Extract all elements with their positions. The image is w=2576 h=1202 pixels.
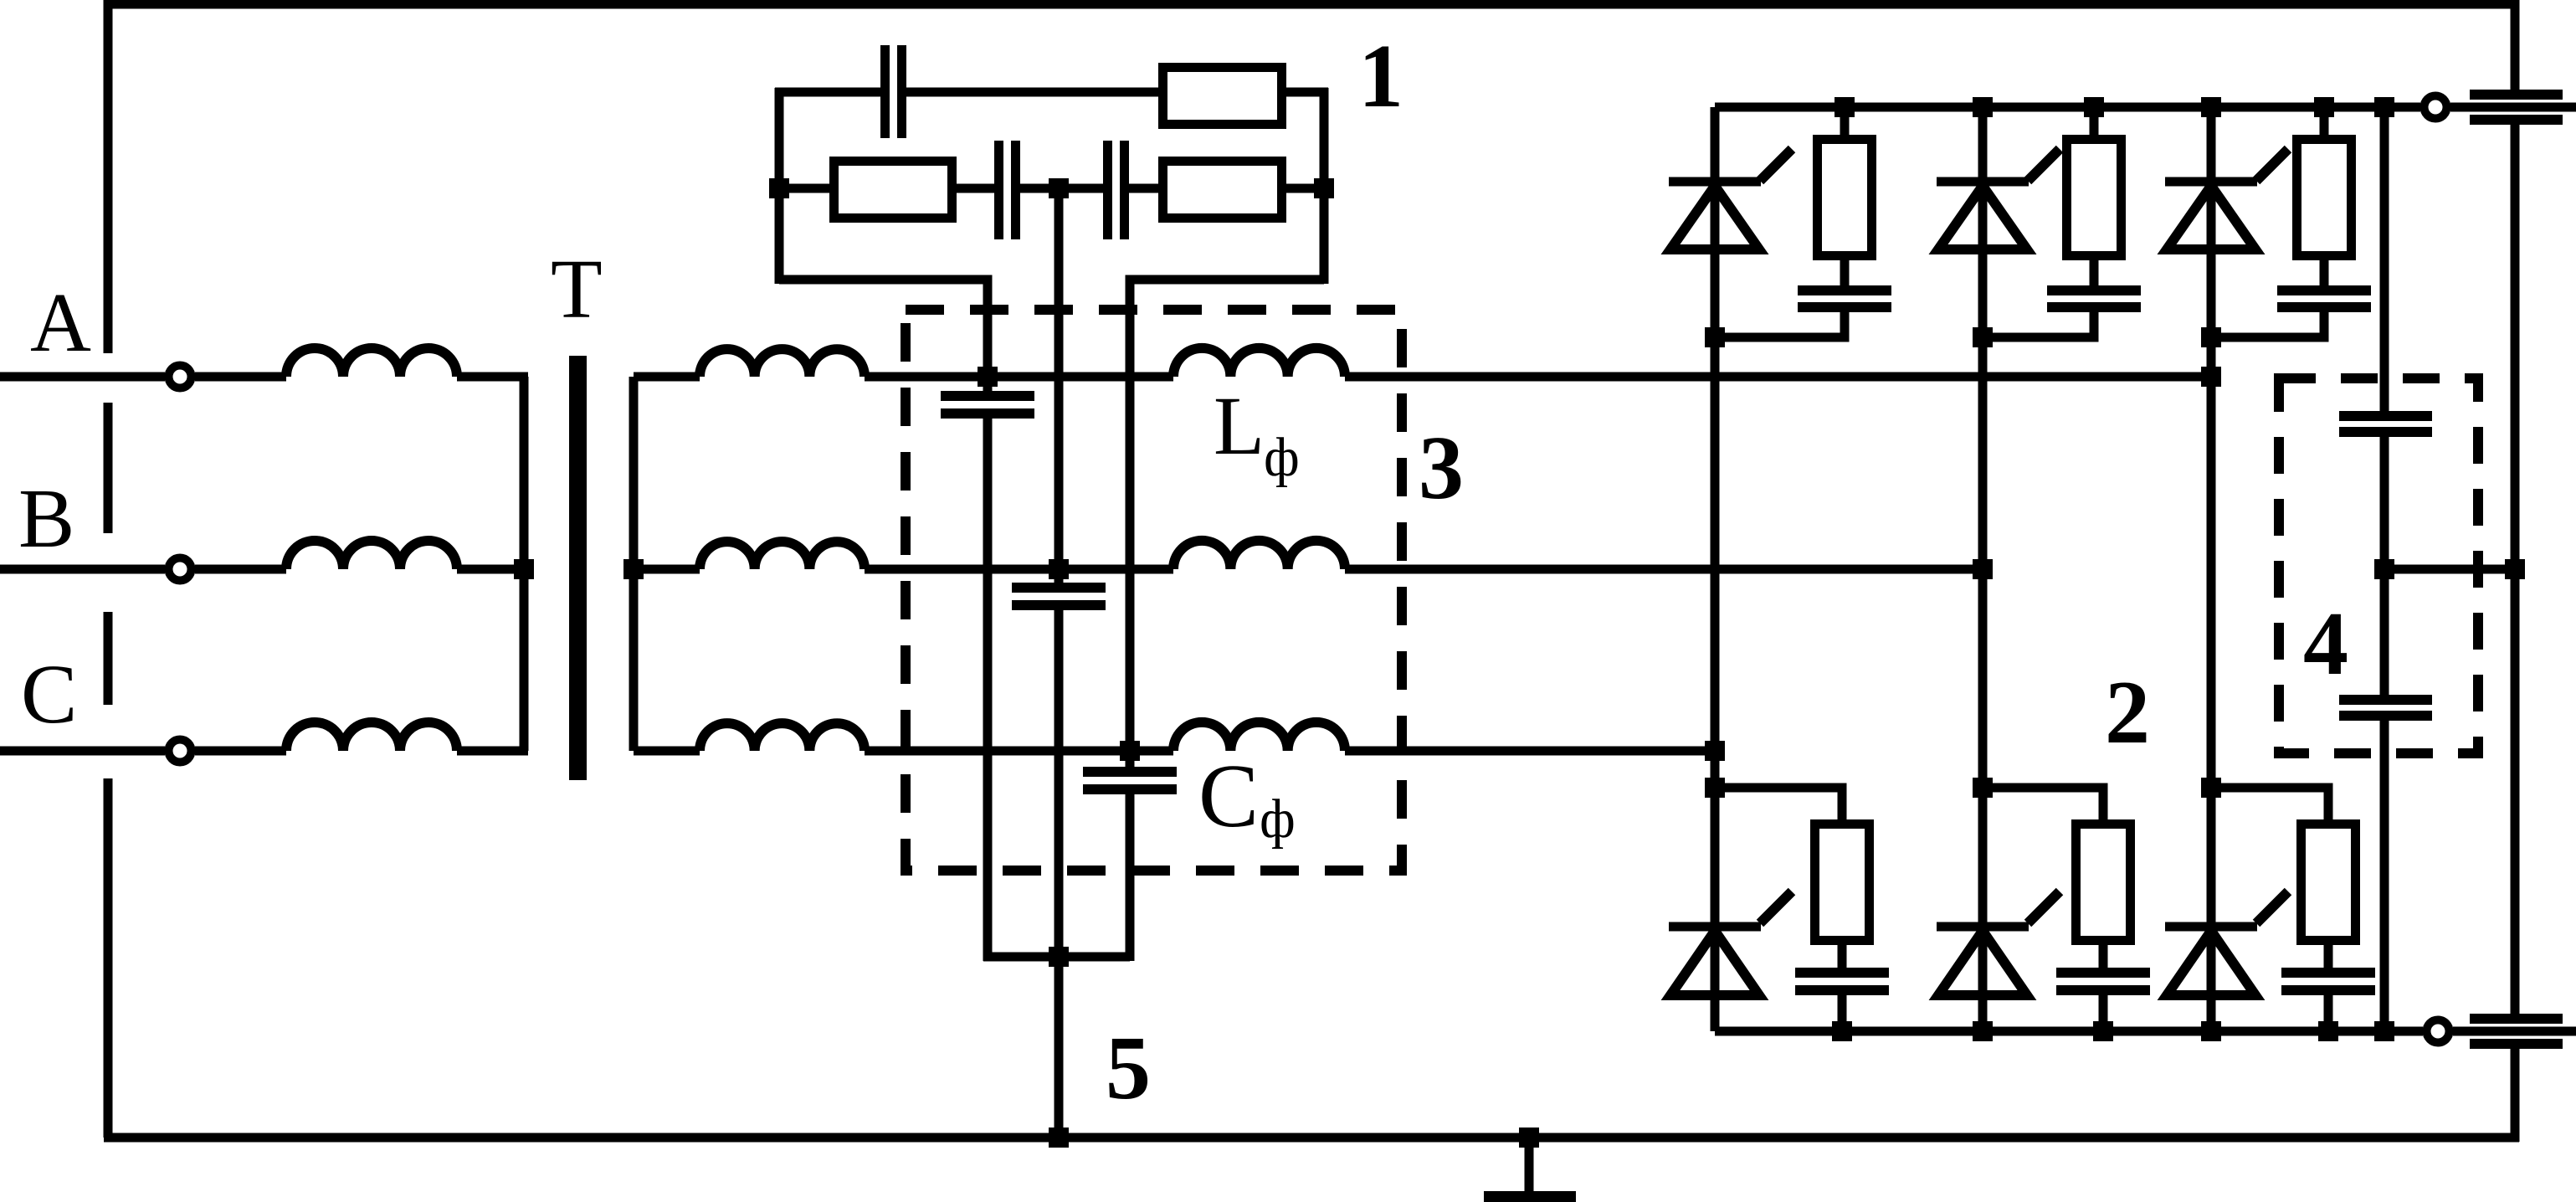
enclosure left border (gap at B) [104, 403, 113, 533]
wire line3 lower [1126, 794, 1135, 961]
capacitor Cf A [941, 391, 1034, 419]
capacitor snubber C3 top [2277, 285, 2371, 312]
node C leg1 [1705, 741, 1725, 761]
node primary star [514, 559, 534, 579]
label 2 [2105, 663, 2150, 763]
wire block1 mid left [779, 184, 829, 193]
resistor snubber R2 top [2067, 140, 2122, 256]
wire snubber 4 mid [1838, 945, 1847, 968]
resistor snubber R1 top [1818, 140, 1872, 256]
label 3 [1419, 419, 1464, 518]
inductor Lf B [1173, 541, 1345, 569]
thyristor VS5 (bottom) [1937, 891, 2060, 995]
node block4 mid [2374, 559, 2394, 579]
node snubber 3 leg join [2201, 327, 2221, 347]
wire snubber 5 mid [2099, 945, 2108, 968]
node line2 jog [1049, 947, 1069, 967]
wire block1 left vertical [775, 88, 784, 284]
svg-text:ф: ф [1264, 427, 1300, 488]
wire line2 lower [1055, 609, 1064, 1138]
wire snubber 3 mid [2320, 260, 2329, 285]
inductor primary C [286, 722, 457, 751]
svg-text:C: C [21, 647, 77, 741]
thyristor VS2 (top) [1937, 149, 2060, 249]
wire snubber 6 bottom [2324, 995, 2333, 1031]
thyristor VS6 (bottom) [2165, 891, 2288, 995]
node block4 border [2505, 559, 2525, 579]
node block4 top bus [2374, 97, 2394, 117]
enclosure left border bottom segment [104, 778, 113, 1138]
node leg2 top bus [1973, 97, 1993, 117]
wire snubber 2 bottom [1983, 312, 2094, 337]
wire primary star vertical [520, 377, 529, 751]
wire snubber 6 top jog [2211, 788, 2328, 819]
wire block1 mid a [957, 184, 994, 193]
inductor secondary A [700, 349, 865, 377]
resistor snubber R3 top [2297, 140, 2352, 256]
inductor primary B [286, 541, 457, 569]
label 4 [2303, 594, 2348, 694]
node block1 mid left [769, 178, 789, 198]
resistor snubber R6 bottom [2301, 824, 2356, 941]
wire B to bridge [1345, 565, 1983, 574]
wire block1 top branch middle [906, 88, 1158, 97]
wire block1 top branch right [1286, 88, 1328, 97]
enclosure right border middle segment [2511, 122, 2520, 1018]
wire secondary star C [634, 747, 700, 756]
wire C to bridge [1345, 747, 1715, 756]
wire A terminal to coil [195, 372, 286, 382]
node snubber 5 bottom bus [2093, 1021, 2113, 1041]
enclosure right border top segment [2511, 0, 2520, 92]
inductor secondary C [700, 723, 865, 751]
capacitor snubber C4 bottom [1795, 968, 1889, 995]
output terminal + (top) [2425, 96, 2447, 119]
capacitor block1 mid-right [1103, 141, 1129, 239]
wire snubber 4 bottom [1838, 995, 1847, 1031]
node line2 phase B [1049, 559, 1069, 579]
label Lf [1214, 379, 1300, 488]
wire snubber 5 bottom [2099, 995, 2108, 1031]
wire snubber 4 top jog [1715, 788, 1842, 819]
wire block1 right vertical [1320, 88, 1329, 284]
node secondary star [623, 559, 644, 579]
inductor Lf A [1173, 348, 1345, 377]
enclosure bottom border [104, 1133, 2519, 1143]
thyristor VS1 (top) [1669, 149, 1792, 249]
enclosure left border (gap at C) [104, 612, 113, 705]
wire block1 top branch left [775, 88, 880, 97]
label B [18, 471, 74, 565]
wire bridge leg 1 [1711, 107, 1720, 1031]
wire block1 bottom right [1130, 280, 1324, 767]
label C [21, 647, 77, 741]
wire snubber 6 mid [2324, 945, 2333, 968]
capacitor block4 upper [2339, 411, 2432, 437]
node snubber R3 top bus [2314, 97, 2334, 117]
node 5 junction [1049, 1128, 1069, 1148]
label 1 [1358, 27, 1403, 126]
wire snubber 2 top [2090, 107, 2099, 135]
wire block4 lower [2380, 721, 2389, 1031]
node ground junction [1519, 1128, 1539, 1148]
inductor primary A [286, 348, 457, 377]
wire C secondary to Lf [865, 747, 1173, 756]
wire feedthrough bottom [2453, 1027, 2576, 1036]
thyristor VS4 (bottom) [1669, 891, 1792, 995]
dashed box 3 [906, 310, 1402, 871]
enclosure right border bottom segment [2511, 1046, 2520, 1142]
wire bottom bus [1715, 1027, 2423, 1036]
node snubber 5 leg join [1973, 778, 1993, 798]
svg-text:L: L [1214, 379, 1265, 472]
svg-text:3: 3 [1419, 419, 1464, 518]
capacitor block1 top [880, 45, 906, 138]
svg-text:A: A [30, 275, 91, 369]
label T [551, 242, 603, 336]
svg-text:4: 4 [2303, 594, 2348, 694]
wire B secondary to Lf [865, 565, 1173, 574]
label A [30, 275, 91, 369]
wire snubber 1 mid [1840, 260, 1850, 285]
wire block4 upper [2380, 107, 2389, 411]
wire snubber 1 top [1840, 107, 1850, 135]
inductor Lf C [1173, 722, 1345, 751]
node B leg2 [1973, 559, 1993, 579]
node snubber R2 top bus [2084, 97, 2104, 117]
svg-text:ф: ф [1260, 788, 1296, 850]
dashed box 4 [2279, 378, 2478, 753]
wire secondary star vertical [629, 377, 639, 751]
wire phase B input [0, 565, 165, 574]
input terminal B [169, 558, 192, 581]
wire block4 to border [2384, 565, 2515, 574]
resistor snubber R5 bottom [2076, 824, 2131, 941]
wire C terminal to coil [195, 747, 286, 756]
wire phase A input [0, 372, 165, 382]
svg-text:T: T [551, 242, 603, 336]
wire block1 mid b [1020, 184, 1103, 193]
node block1 mid right [1314, 178, 1334, 198]
node snubber 4 leg join [1705, 778, 1725, 798]
wire snubber 1 bottom [1715, 312, 1845, 337]
wire snubber 2 mid [2090, 260, 2099, 285]
wire C coil to star [457, 747, 528, 756]
capacitor Cf C [1083, 767, 1177, 794]
wire jog bottom [983, 953, 1130, 962]
wire A secondary to Lf [865, 372, 1173, 382]
wire A to bridge [1345, 372, 2211, 382]
node snubber 6 bottom bus [2318, 1021, 2338, 1041]
svg-text:5: 5 [1106, 1019, 1151, 1118]
wire block1 bottom left [779, 280, 988, 391]
svg-text:1: 1 [1358, 27, 1403, 126]
wire line2 upper [1055, 188, 1064, 583]
capacitor feedthrough top [2470, 90, 2563, 125]
wire block4 middle [2380, 437, 2389, 695]
svg-text:C: C [1198, 747, 1259, 846]
inductor secondary B [700, 542, 865, 569]
wire snubber 3 top [2320, 107, 2329, 135]
node snubber 6 leg join [2201, 778, 2221, 798]
wire B terminal to coil [195, 565, 286, 574]
enclosure top border [104, 0, 2519, 9]
output terminal - (bottom) [2427, 1020, 2450, 1043]
resistor snubber R4 bottom [1815, 824, 1870, 941]
svg-text:B: B [18, 471, 74, 565]
capacitor Cf B [1012, 583, 1106, 610]
capacitor block1 mid-left [994, 141, 1020, 239]
wire line1 lower [983, 418, 993, 961]
capacitor feedthrough bottom [2470, 1014, 2563, 1049]
thyristor VS3 (top) [2165, 149, 2288, 249]
node snubber 2 leg join [1973, 327, 1993, 347]
wire secondary star B [634, 565, 700, 574]
wire top bus [1715, 103, 2420, 112]
wire snubber 5 top jog [1983, 788, 2103, 819]
capacitor snubber C2 top [2047, 285, 2141, 312]
label Cf [1198, 747, 1296, 850]
wire B coil to star [457, 565, 528, 574]
resistor block1 mid-right [1163, 162, 1282, 218]
input terminal A [169, 366, 192, 388]
enclosure left border (gap at A) [104, 0, 113, 353]
capacitor snubber C6 bottom [2281, 968, 2375, 995]
wire bridge leg 2 [1978, 107, 1988, 1031]
capacitor block4 lower [2339, 695, 2432, 721]
node line1 phase A [978, 367, 998, 387]
node block4 bottom bus [2374, 1021, 2394, 1041]
node leg5 bottom bus [1973, 1021, 1993, 1041]
capacitor snubber C5 bottom [2056, 968, 2150, 995]
input terminal C [169, 740, 192, 763]
node snubber 1 leg join [1705, 327, 1725, 347]
wire bridge leg 3 [2207, 107, 2216, 1031]
node block1 mid center [1049, 178, 1069, 198]
resistor block1 mid-left [834, 162, 952, 218]
node leg6 bottom bus [2201, 1021, 2221, 1041]
node A leg3 [2201, 367, 2221, 387]
wire phase C input [0, 747, 165, 756]
node snubber R1 top bus [1835, 97, 1855, 117]
wire A coil to star [457, 372, 528, 382]
ground [1484, 1138, 1576, 1202]
wire feedthrough top [2450, 103, 2576, 112]
capacitor snubber C1 top [1798, 285, 1891, 312]
node line3 phase C [1120, 741, 1140, 761]
node snubber 4 bottom bus [1832, 1021, 1852, 1041]
resistor block1 top [1163, 68, 1282, 125]
wire snubber 3 bottom [2211, 312, 2324, 337]
node leg3 top bus [2201, 97, 2221, 117]
label 5 [1106, 1019, 1151, 1118]
wire block1 mid c [1129, 184, 1158, 193]
svg-text:2: 2 [2105, 663, 2150, 763]
wire block1 mid right [1286, 184, 1324, 193]
transformer T core [569, 356, 587, 780]
wire secondary star A [634, 372, 700, 382]
